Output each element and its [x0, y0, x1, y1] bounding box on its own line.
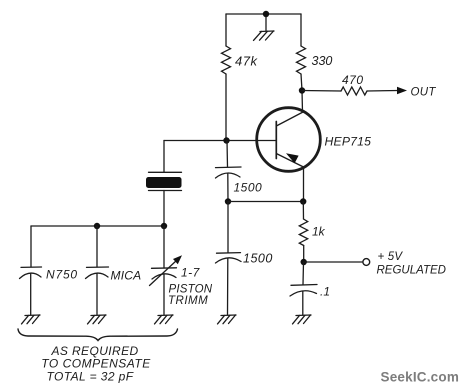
svg-text:TRIMM: TRIMM: [168, 295, 208, 307]
wire trimmer bottom lead: [163, 274, 165, 315]
wire 1k bottom to supply node: [303, 246, 305, 263]
wire base from crystal to transistor: [164, 140, 276, 142]
trimmer arrowhead: [173, 255, 182, 264]
capacitor MICA curved plate: [86, 273, 109, 278]
transistor base bar: [275, 122, 277, 159]
junction dot base node: [223, 137, 229, 143]
capacitor C 1500 (emitter bypass) top plate: [217, 252, 241, 255]
transistor collector stroke: [276, 112, 303, 126]
capacitor C .1 top plate: [291, 284, 317, 287]
junction dot left emitter rail: [225, 198, 231, 204]
wire emitter node to 1k: [302, 202, 304, 220]
svg-text:1500: 1500: [234, 181, 263, 195]
wire supply node to terminal: [304, 261, 363, 263]
svg-text:TOTAL = 32 pF: TOTAL = 32 pF: [47, 369, 134, 383]
wire compensation rail: [31, 225, 164, 227]
wire top supply rail: [226, 13, 301, 15]
trimmer arrow shaft: [150, 261, 177, 286]
svg-text:OUT: OUT: [411, 86, 437, 98]
wire base node down to C 1500: [226, 141, 229, 168]
svg-text:47k: 47k: [235, 54, 258, 69]
wire C 1500 bypass to ground: [227, 259, 229, 316]
wire transistor emitter down: [303, 167, 305, 202]
svg-text:330: 330: [312, 54, 333, 68]
wire C 1500 bottom to emitter rail: [227, 174, 229, 202]
wire supply node down to C .1: [302, 262, 305, 285]
resistor 47k: [222, 46, 231, 74]
arrowhead out: [397, 87, 407, 95]
wire top ground stub: [265, 17, 267, 31]
wire crystal bottom lead: [163, 191, 165, 227]
transistor Q1 HEP715 circle: [257, 108, 321, 172]
wire 330 top lead: [300, 14, 302, 46]
wire 330 bottom lead to collector node: [301, 74, 303, 112]
wire emitter rail horizontal: [228, 201, 303, 203]
ground N750: [22, 315, 41, 324]
ground C .1: [293, 315, 312, 324]
transistor emitter arrowhead (PNP): [286, 153, 299, 163]
svg-text:1500: 1500: [243, 252, 273, 266]
svg-text:.1: .1: [320, 285, 330, 299]
junction dot supply node: [301, 259, 307, 265]
svg-text:PISTON: PISTON: [169, 284, 213, 296]
junction dot collector node: [299, 87, 305, 93]
brace compensation group: [18, 329, 178, 341]
wire emitter rail down to C 1500 bypass: [227, 202, 229, 253]
capacitor N750 top plate: [21, 266, 42, 268]
svg-text:SeekIC.com: SeekIC.com: [381, 370, 460, 385]
capacitor trimmer top plate: [152, 267, 177, 270]
svg-text:470: 470: [342, 73, 364, 87]
junction dot mica node: [94, 223, 100, 229]
terminal open circle +5V: [363, 259, 370, 266]
capacitor C 1500 (base bypass) top plate: [216, 166, 242, 169]
capacitor N750 curved plate: [20, 273, 42, 278]
capacitor C .1 curved plate: [290, 291, 317, 296]
svg-text:HEP715: HEP715: [325, 134, 372, 148]
junction dot trimmer node: [161, 223, 167, 229]
transistor emitter stroke: [276, 154, 303, 168]
wire C .1 to ground: [302, 291, 304, 315]
ground MICA: [88, 315, 107, 324]
ground C 1500 bypass: [218, 315, 237, 324]
wire N750 bottom lead: [30, 274, 32, 316]
resistor 1k: [299, 219, 307, 246]
wire trimmer top lead: [163, 226, 165, 268]
crystal Y1 top plate: [149, 171, 182, 173]
junction dot top rail: [263, 11, 269, 17]
crystal Y1 body: [146, 177, 182, 188]
junction dot emitter node: [300, 198, 306, 204]
wire MICA top lead: [96, 226, 98, 267]
wire 470 to out arrow: [367, 90, 398, 93]
svg-text:+ 5V: + 5V: [378, 251, 404, 263]
wire 47k bottom lead to base node: [225, 74, 227, 141]
ground trimmer: [155, 315, 174, 324]
svg-text:MICA: MICA: [111, 269, 142, 283]
svg-text:N750: N750: [46, 268, 78, 282]
wire crystal top lead: [163, 141, 165, 173]
capacitor C 1500 (emitter bypass) curved plate: [216, 258, 242, 263]
svg-text:TO COMPENSATE: TO COMPENSATE: [41, 356, 151, 370]
ground top chassis: [254, 31, 275, 40]
capacitor trimmer curved plate: [152, 274, 176, 279]
capacitor MICA top plate: [87, 266, 109, 268]
wire MICA bottom lead: [96, 274, 98, 316]
capacitor C 1500 curved plate: [216, 173, 241, 178]
resistor 330: [297, 46, 306, 74]
crystal Y1 bottom plate: [149, 190, 182, 192]
svg-text:1k: 1k: [312, 225, 326, 239]
svg-text:1-7: 1-7: [181, 266, 201, 280]
svg-text:REGULATED: REGULATED: [377, 264, 446, 276]
resistor 470: [341, 87, 367, 95]
wire 47k top lead: [225, 14, 227, 46]
wire N750 top lead: [30, 226, 32, 267]
wire collector node to 470: [302, 90, 341, 93]
